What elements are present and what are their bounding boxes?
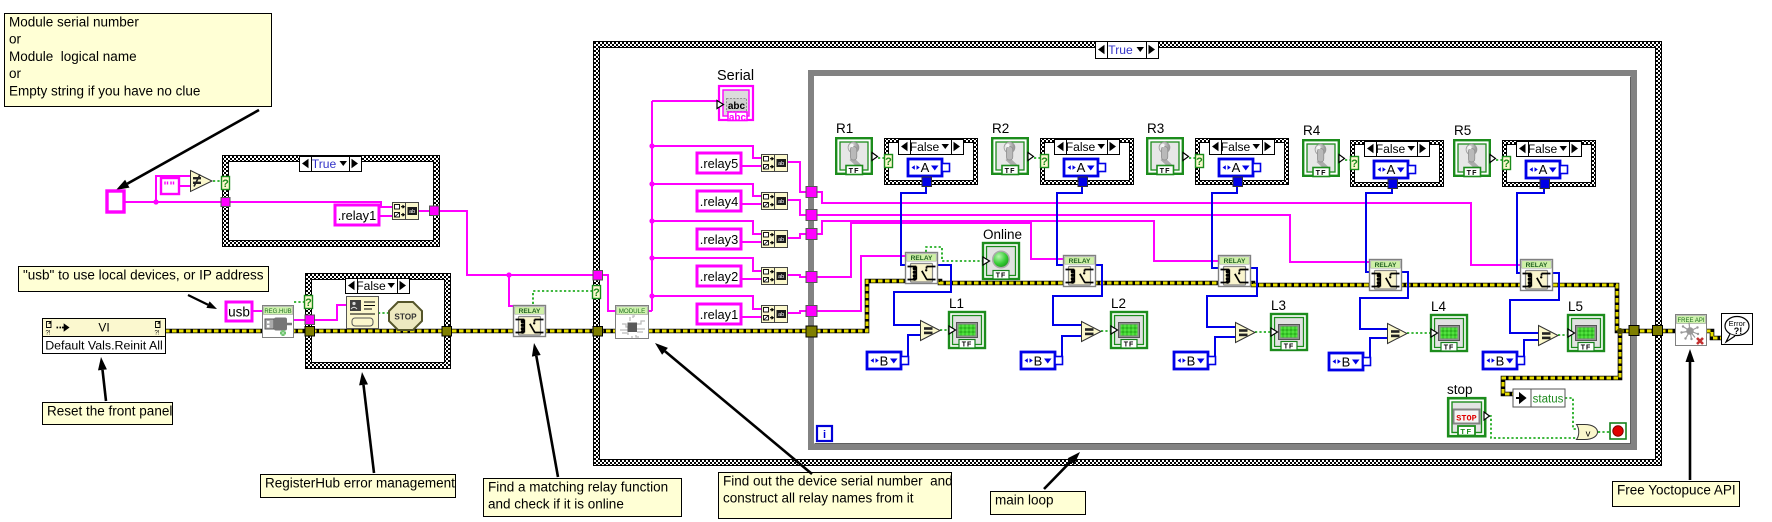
svg-text:construct all relay names from: construct all relay names from it [723,491,914,506]
LED indicator L5 [1568,315,1604,352]
wire boolean relay find to main case selector [533,291,593,304]
comment main loop [991,492,1086,515]
case selector label False 5 [1517,142,1582,157]
LED indicator L1 [949,312,985,349]
wire boolean toggle R1 to case selector [878,157,885,159]
enum constant A 3 [1219,159,1261,176]
toggle control R5 [1454,140,1495,177]
svg-text:B: B [1034,354,1043,369]
wire blue A tunnel to relay VI 4 [1366,186,1392,272]
svg-text:?!: ?! [1734,326,1743,336]
concatenate strings 2 [762,268,788,285]
arrow to loop border [1044,452,1080,489]
wire .relay3 to concat [741,241,761,243]
wire .relay2 inside loop to relay VI 2 [817,223,1063,277]
svg-text:L3: L3 [1271,298,1286,313]
wire concat 1 to loop tunnel [787,311,806,313]
wire branch to not-equal [156,176,190,202]
wire blue B constant to equal 4 [1370,338,1387,362]
case selector label True (case1) [300,157,362,172]
arrow to free API VI [1686,349,1695,480]
error dialog icon [1722,314,1753,345]
LED indicator Online [983,243,1019,280]
wire junction trunk 2 [649,255,654,260]
svg-text:REG.HUB: REG.HUB [264,309,291,315]
svg-text:R1: R1 [836,121,853,136]
enum constant B 2 [1021,352,1063,369]
svg-text:?!: ?! [155,331,160,337]
wire branch down to relay find VI [509,275,514,306]
enum constant B 4 [1329,353,1371,370]
tunnel blue case 1 [922,177,932,187]
svg-text:A: A [1387,162,1396,177]
wire error FREE API to error dialog [1706,331,1722,338]
svg-text:.relay2: .relay2 [700,269,738,284]
case selector label True (main) [1096,42,1159,59]
string indicator Serial [717,68,754,124]
wire .relay5 to concat [741,165,761,167]
tunnel olive case2 in [305,327,315,337]
svg-text:False: False [1528,142,1558,156]
wire concat to tunnel case 1 [418,210,430,212]
wire boolean relay1 to Online LED [926,247,984,261]
svg-text:False: False [356,279,386,293]
svg-text:Serial: Serial [717,68,754,84]
svg-text:A: A [1077,160,1086,175]
tunnel olive case2 out [442,327,452,337]
relay VI 1 [906,253,938,284]
wire .relay1 to concat [741,316,761,318]
tunnel olive loop in [806,326,817,337]
svg-text:R2: R2 [992,121,1009,136]
wire .relay2 to concat [741,278,761,280]
svg-text:Reset the front panel: Reset the front panel [47,404,172,419]
wire boolean Or to loop condition [1598,431,1610,433]
comment find matching relay [484,479,682,517]
while loop iteration terminal i [817,426,832,441]
equal node 3 [1236,323,1256,343]
wire blue relay VI 1 to equal [894,265,951,325]
wire junction trunk 4 [649,181,654,186]
Or node [1577,425,1598,440]
wire boolean equal to LED L5 [1558,334,1569,336]
svg-text:status: status [1533,394,1564,406]
wire trunk branch row 5 [652,146,761,158]
wire string from control to case 1 [124,201,222,203]
wire .relay5 inside loop to relay VI 5 [817,192,1520,265]
case structure False 3 frame [1195,138,1289,185]
svg-text:L1: L1 [949,296,964,311]
svg-text:B: B [1342,355,1351,370]
comment reset front panel [43,403,173,425]
wire junction trunk 3 [649,218,654,223]
relay VI 3 [1219,256,1251,287]
wire trunk branch row 3 [652,221,761,234]
case selector label False 1 [899,140,964,155]
svg-text:.relay4: .relay4 [700,194,738,209]
selector terminal False case 2 [1041,155,1049,169]
wire concat 3 to loop tunnel [787,234,806,238]
svg-text:.relay1: .relay1 [338,208,376,223]
wire boolean toggle R4 to case selector [1345,159,1351,161]
svg-text:B: B [1496,354,1505,369]
svg-text:or: or [9,66,22,81]
relay find VI [514,306,546,337]
tunnel blue case 5 [1540,179,1550,189]
free API VI [1676,315,1707,346]
selector terminal False case 1 [885,155,893,169]
svg-text:Find out the device serial num: Find out the device serial number and [723,474,953,489]
equal node 4 [1388,324,1408,344]
toggle control R3 [1147,138,1188,175]
case structure False 2 frame [1040,138,1134,185]
wire blue B constant to equal 3 [1215,337,1235,361]
wire MODULE serial trunk [648,101,718,311]
empty string constant [161,178,179,194]
wire .relay1 to concat case 1 [379,215,392,217]
wire boolean toggle R2 to case selector [1034,157,1041,159]
enum constant B 3 [1174,352,1216,369]
comment find device serial [719,473,953,519]
tunnel pink main case [593,271,603,281]
error wire junction [1617,328,1623,334]
svg-text:Module serial number: Module serial number [9,15,139,30]
concatenate strings 3 [762,231,788,248]
wire boolean dialog to stop function [378,312,389,314]
enum constant A 4 [1374,161,1416,178]
wire trunk branch row 2 [652,258,761,271]
wire blue A tunnel to relay VI 1 [901,186,926,265]
svg-text:?: ? [1503,158,1510,170]
enum constant A 1 [908,159,950,176]
svg-text:abc: abc [729,113,747,124]
wire inside case 1 [230,202,392,207]
tunnel pink loop relay5 [806,187,817,198]
svg-text:A: A [1539,162,1548,177]
arrow to case2 [359,372,374,473]
wire .relay3 inside loop to relay VI 3 [817,221,1218,261]
wire blue relay VI 3 to equal [1207,268,1257,327]
case structure False 5 frame [1502,140,1596,187]
wire blue relay VI 2 to equal [1053,265,1102,325]
wire blue relay VI 5 to equal [1510,273,1559,333]
one button dialog icon [347,297,379,329]
concatenate strings 5 [762,155,788,172]
tunnel pink case1 out [430,206,440,216]
toggle control R4 [1303,140,1344,177]
wire boolean RegisterHub to case2 selector [294,301,304,303]
stop button control [1448,398,1489,436]
wire boolean equal to LED L1 [940,329,950,331]
wire trunk branch row 4 [652,184,761,196]
LED indicator L2 [1111,312,1147,349]
svg-text:.relay3: .relay3 [700,232,738,247]
wire boolean toggle R5 to case selector [1496,159,1503,161]
arrow to string control [116,110,259,190]
svg-text:STOP: STOP [394,313,417,322]
comment RegisterHub error management [261,475,456,498]
svg-text:?!: ?! [46,331,51,337]
svg-text:False: False [1066,140,1096,154]
comment usb note [19,267,269,292]
svg-text:R4: R4 [1303,123,1321,138]
case structure 1 True frame [222,155,440,247]
svg-text:?: ? [885,156,892,168]
svg-text:usb: usb [228,305,250,320]
svg-text:Default Vals.Reinit All: Default Vals.Reinit All [45,339,163,353]
comment module serial number note [5,14,272,107]
concatenate strings case1 [393,203,419,220]
svg-text:abc: abc [728,101,746,112]
string control terminal [107,191,124,212]
case structure False 4 frame [1350,140,1444,187]
MODULE VI [616,306,649,339]
selector terminal False case 3 [1196,155,1204,169]
case selector label False 2 [1055,140,1120,155]
stop function icon [389,302,422,330]
comment free yoctopuce api [1613,482,1740,507]
selector terminal main case [593,286,601,300]
tunnel pink loop relay1 [806,306,817,317]
enum constant A 5 [1526,161,1568,178]
wire boolean toggle R3 to case selector [1189,157,1196,159]
arrow to invoke node [98,357,107,401]
svg-text:stop: stop [1447,382,1473,397]
wire boolean equal to LED L3 [1255,331,1272,333]
wire blue B constant to equal 5 [1524,340,1538,361]
svg-text:MODULE: MODULE [619,308,645,315]
wire error cluster main run [165,281,1675,331]
svg-text:Free Yoctopuce API: Free Yoctopuce API [1617,483,1736,498]
svg-text:and check if it is online: and check if it is online [488,497,624,512]
svg-text:Find a matching relay function: Find a matching relay function [488,480,668,495]
wire blue relay VI 4 to equal [1360,272,1408,329]
tunnel olive loop out [1629,326,1639,336]
svg-text:i: i [823,429,826,441]
not equal node [191,171,213,192]
string constant .relay5 [697,153,741,173]
string constant .relay4 [697,191,741,211]
tunnel blue case 4 [1388,179,1398,189]
svg-text:?: ? [305,297,312,309]
svg-text:Online: Online [983,227,1022,242]
tunnel pink case1 in [221,198,230,207]
wire RegisterHub to case 2 tunnel [293,319,306,321]
tunnel pink loop relay2 [806,272,817,283]
tunnel olive main case out [1653,326,1663,336]
wire .relay4 to concat [741,203,761,205]
toggle control R1 [836,138,877,175]
wire boolean not-equal to case1 selector [213,180,222,182]
case structure False 1 frame [884,138,978,185]
invoke node VI Default Vals.Reinit All [43,319,166,354]
case selector label False (case2) [346,279,410,294]
wire junction trunk 5 [649,143,654,148]
enum constant B 1 [867,352,909,369]
svg-text:FREE API: FREE API [1677,318,1704,324]
case selector label False 3 [1210,140,1275,155]
string constant .relay1 case1 [335,205,379,225]
selector terminal False case 4 [1351,157,1359,171]
svg-text:?: ? [222,178,229,190]
case structure 2 False frame [305,273,451,369]
wire boolean stop button to Or [1485,416,1576,438]
wire empty string to not-equal [179,185,190,187]
wire tunnel to dialog inside case 2 [314,305,347,320]
wire junction trunk 1 [649,293,654,298]
concatenate strings 1 [762,306,788,323]
string constant usb [226,302,252,321]
enum constant B 5 [1483,352,1525,369]
tunnel blue case 2 [1078,177,1088,187]
wire boolean equal to LED L4 [1407,332,1432,334]
svg-text:False: False [1376,142,1406,156]
wire error branch to status unbundle [1503,331,1620,394]
relay VI 2 [1064,256,1096,287]
selector terminal False case 5 [1503,157,1511,171]
svg-text:.relay1: .relay1 [700,307,738,322]
svg-text:R3: R3 [1147,121,1164,136]
tunnel pink loop relay3 [806,229,817,240]
wire junction dot [153,199,158,204]
svg-text:False: False [1221,140,1251,154]
wire .relay1 inside loop to relay VI 1 [817,256,905,311]
case structure main True frame [593,41,1662,466]
wire concat 2 to loop tunnel [787,275,806,277]
svg-text:?: ? [593,287,600,299]
equal node 5 [1539,326,1559,346]
equal node 1 [921,321,941,341]
string constant .relay1 [697,304,741,324]
wire usb to RegisterHub [252,310,263,312]
wire blue A tunnel to relay VI 5 [1517,186,1544,273]
wire blue A tunnel to relay VI 3 [1212,186,1237,268]
svg-text:RegisterHub error management: RegisterHub error management [265,476,455,491]
selector terminal case1 [222,177,230,191]
wire blue B constant to equal 1 [908,335,920,361]
tunnel pink loop relay4 [806,210,817,221]
svg-text:.relay5: .relay5 [700,156,738,171]
svg-text:v: v [1586,429,1591,440]
wire concat 5 to loop tunnel [787,162,806,192]
svg-text:L2: L2 [1111,296,1126,311]
arrow to relay find VI [532,343,558,477]
svg-text:main loop: main loop [995,493,1054,508]
svg-text:STOP: STOP [1456,414,1476,424]
svg-text:A: A [1232,160,1241,175]
tunnel olive main case in [593,327,603,337]
arrow to usb constant [188,295,217,309]
svg-text:True: True [1108,43,1133,57]
wire trunk branch row 1 [652,296,761,309]
enum constant A 2 [1064,159,1106,176]
svg-text:or: or [9,32,22,47]
wire blue A tunnel to relay VI 2 [1057,186,1082,265]
svg-text:False: False [910,140,940,154]
loop condition terminal stop sign [1610,423,1626,439]
wire boolean equal to LED L2 [1101,330,1112,332]
svg-text:VI: VI [98,321,109,335]
concatenate strings 4 [762,193,788,210]
wire .relay4 inside loop to relay VI 4 [817,215,1369,262]
wire junction dot 2 [506,272,511,277]
case selector label False 4 [1365,142,1430,157]
svg-text:B: B [1187,354,1196,369]
svg-text:True: True [312,157,337,171]
relay VI 4 [1370,260,1402,291]
svg-text:L4: L4 [1431,299,1447,314]
svg-text:Module logical name: Module logical name [9,49,137,64]
svg-text:?: ? [1041,156,1048,168]
svg-text:?: ? [1351,158,1358,170]
wire case1 to relay find and module [439,211,593,275]
string constant .relay2 [697,266,741,286]
arrow to MODULE VI [655,343,812,474]
svg-text:TF: TF [1460,427,1472,436]
toggle control R2 [992,138,1033,175]
relay VI 5 [1521,260,1553,291]
wire boolean status to Or [1565,398,1576,429]
svg-text:R5: R5 [1454,123,1471,138]
svg-text:Empty string if you have no cl: Empty string if you have no clue [9,83,200,98]
svg-text:L5: L5 [1568,299,1583,314]
wire concat 4 to loop tunnel [787,200,806,215]
LED indicator L3 [1271,314,1307,351]
wire blue B constant to equal 2 [1062,336,1081,361]
RegisterHub VI [263,306,294,338]
selector terminal case2 [305,296,313,310]
tunnel pink case2 in [305,315,315,325]
wire tunnel to MODULE VI [602,275,616,311]
string constant .relay3 [697,229,741,249]
equal node 2 [1082,322,1102,342]
svg-text:?: ? [1196,156,1203,168]
svg-text:"usb" to use local devices, or: "usb" to use local devices, or IP addres… [23,268,264,283]
tunnel blue case 3 [1233,177,1243,187]
while loop frame [808,70,1637,450]
LED indicator L4 [1431,315,1467,352]
svg-text:A: A [921,160,930,175]
unbundle status node [1513,389,1565,407]
svg-text:B: B [880,354,889,369]
